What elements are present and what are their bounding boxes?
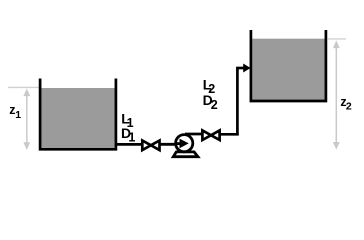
inlet to tank 2 with arrow — [236, 64, 250, 73]
valve V2 — [202, 130, 219, 140]
svg-text:1: 1 — [128, 130, 135, 144]
riser pipe — [236, 68, 239, 136]
tank 1 water — [41, 88, 114, 148]
svg-text:2: 2 — [211, 98, 218, 112]
pump flow arrow — [176, 139, 189, 149]
pipe 2 to riser — [220, 133, 239, 136]
svg-text:1: 1 — [15, 109, 21, 121]
label L2 — [203, 76, 216, 96]
pump outlet pipe — [185, 133, 203, 136]
valve V1 — [142, 141, 159, 151]
label L1 — [121, 110, 133, 129]
water level reference line tank 2 — [327, 38, 346, 40]
tank 1 walls — [40, 79, 116, 150]
dimension arrow z2 — [333, 40, 340, 149]
pump P circle — [176, 135, 193, 152]
water level reference line tank 1 — [8, 86, 39, 88]
label z2 — [340, 95, 352, 113]
svg-text:2: 2 — [346, 101, 352, 113]
label D1 — [121, 125, 135, 145]
label D2 — [203, 92, 218, 112]
tank 2 water — [252, 39, 325, 100]
pipe into pump — [160, 143, 180, 146]
pump base — [173, 152, 198, 157]
tank 2 walls — [251, 30, 326, 101]
pipe 1 suction segment — [116, 143, 143, 146]
label z1 — [9, 103, 21, 121]
dimension arrow z1 — [23, 88, 30, 150]
